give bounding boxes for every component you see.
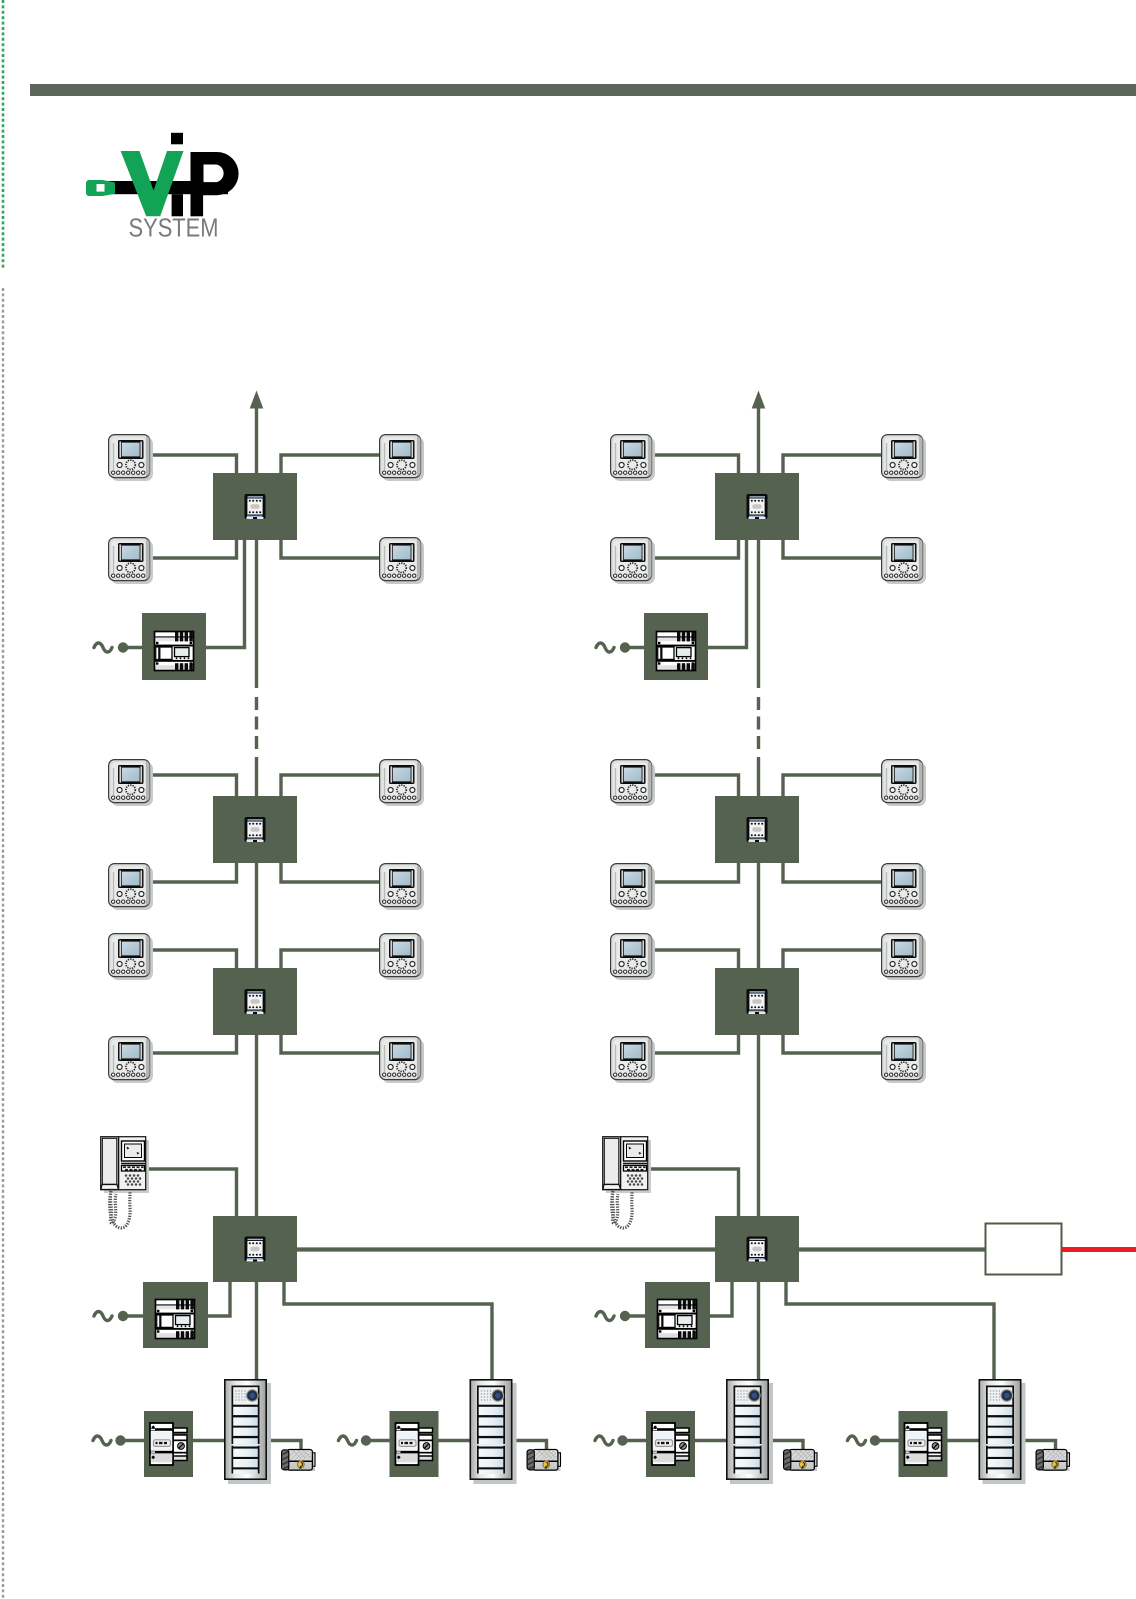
wire mains to door PSU La	[124, 1439, 146, 1442]
wire main distributor to door station DS1a	[255, 1280, 258, 1382]
logo letter P stem	[191, 152, 204, 216]
monitor R5 right	[882, 934, 926, 980]
door station DS2b	[979, 1380, 1025, 1484]
electric lock Ra	[784, 1450, 817, 1472]
wire monitor row 6 left R	[650, 1034, 739, 1053]
junction dot PS1a	[118, 642, 128, 652]
wire monitor row 5 left R	[650, 950, 739, 969]
riser bus L dashed continuation	[255, 697, 258, 750]
trunk bus to legend box	[797, 1247, 986, 1251]
monitor L4 right	[380, 864, 424, 910]
wire mains to PS2b	[626, 1314, 646, 1317]
wire door station to lock La	[265, 1441, 301, 1453]
riser bus L arrow head	[250, 391, 264, 409]
riser bus R lower segment	[757, 757, 760, 1282]
power supply PS2b box	[645, 1282, 710, 1348]
mains tilde PS2a	[596, 643, 614, 652]
wire monitor row 2 left R	[650, 539, 739, 558]
monitor L2 right	[380, 538, 424, 584]
logo letter i stem	[172, 194, 183, 216]
wire main distributor to door station DS1b	[284, 1280, 492, 1382]
floor distributor box R3	[715, 968, 799, 1035]
main distributor box L4	[213, 1216, 297, 1282]
riser bus L lower segment	[255, 757, 258, 1282]
monitor L1 left	[109, 435, 153, 481]
wire mains to PS1a	[124, 646, 144, 649]
junction dot PS2b	[620, 1311, 630, 1321]
logo plug notch	[97, 184, 105, 192]
left margin gray dotted rule	[2, 288, 4, 1599]
riser bus L upper segment	[255, 404, 258, 688]
wire monitor row 1 left R	[650, 455, 739, 474]
monitor R3 right	[882, 760, 926, 806]
red trunk continuation	[1062, 1247, 1136, 1252]
mains tilde door Lb	[339, 1436, 357, 1445]
wire door station to lock Lb	[511, 1441, 547, 1453]
electric lock La	[282, 1450, 315, 1472]
monitor R3 left	[611, 760, 655, 806]
wire monitor row 5 right L	[281, 950, 381, 969]
logo plug collar	[105, 180, 116, 196]
wire monitor row 1 right L	[281, 455, 381, 474]
wire handset H2 to main distributor	[648, 1169, 739, 1217]
mains tilde door Rb	[848, 1436, 866, 1445]
logo letter i dot	[171, 133, 183, 145]
wire monitor row 2 right L	[281, 539, 381, 558]
wire monitor row 6 right L	[281, 1034, 381, 1053]
monitor L5 right	[380, 934, 424, 980]
door PSU La box	[144, 1411, 193, 1477]
logo letter P bowl	[191, 152, 239, 195]
wire monitor row 3 right R	[783, 775, 883, 797]
monitor R1 left	[611, 435, 655, 481]
wire mains to door PSU Rb	[879, 1439, 901, 1442]
wire door station to lock Ra	[767, 1441, 803, 1453]
wire door PSU to door station Ra	[694, 1439, 728, 1442]
header bar	[30, 84, 1136, 96]
wire monitor row 2 right R	[783, 539, 883, 558]
door PSU Lb box	[390, 1411, 439, 1477]
left margin green dotted rule	[2, 0, 5, 268]
wire monitor row 4 right R	[783, 862, 883, 882]
wire mains to door PSU Lb	[370, 1439, 392, 1442]
wire monitor row 1 left L	[148, 455, 237, 474]
wire mains to door PSU Ra	[626, 1439, 648, 1442]
wire monitor row 3 left R	[650, 775, 739, 797]
power supply PS1b box	[143, 1282, 208, 1348]
wire monitor row 6 right R	[783, 1034, 883, 1053]
door station DS1a	[225, 1380, 271, 1484]
monitor R6 right	[882, 1037, 926, 1083]
junction dot door La	[115, 1435, 125, 1445]
wire monitor row 3 right L	[281, 775, 381, 797]
riser bus R upper segment	[757, 404, 760, 688]
logo letter V	[121, 151, 184, 216]
wire main distributor to door station DS2a	[757, 1280, 760, 1382]
floor distributor box L1	[213, 473, 297, 540]
logo ViP cable bar	[108, 181, 228, 194]
wire door PSU to door station Rb	[947, 1439, 981, 1442]
mains tilde door Ra	[595, 1436, 613, 1445]
floor distributor box L3	[213, 968, 297, 1035]
wire monitor row 3 left L	[148, 775, 237, 797]
monitor R5 left	[611, 934, 655, 980]
wire door PSU to door station La	[192, 1439, 226, 1442]
wire power supply PS1a to distributor	[206, 539, 245, 648]
floor distributor box R1	[715, 473, 799, 540]
electric lock Lb	[527, 1450, 560, 1472]
legend box	[986, 1224, 1062, 1275]
wire handset H1 to main distributor	[146, 1169, 237, 1217]
wire power supply PS2b to main distributor	[710, 1280, 732, 1316]
monitor L1 right	[380, 435, 424, 481]
wire power supply PS2a to distributor	[708, 539, 747, 648]
floor distributor box L2	[213, 796, 297, 863]
door PSU Ra box	[646, 1411, 695, 1477]
monitor L5 left	[109, 934, 153, 980]
monitor L4 left	[109, 864, 153, 910]
wire power supply PS1b to main distributor	[208, 1280, 230, 1316]
wire mains to PS1b	[124, 1314, 144, 1317]
wire door PSU to door station Lb	[438, 1439, 472, 1442]
wire main distributor to door station DS2b	[786, 1280, 994, 1382]
power supply PS1a box	[142, 613, 206, 680]
wire monitor row 6 left L	[148, 1034, 237, 1053]
wire monitor row 5 right R	[783, 950, 883, 969]
riser bus R arrow head	[752, 391, 766, 409]
wire monitor row 5 left L	[148, 950, 237, 969]
wire door station to lock Rb	[1020, 1441, 1056, 1453]
electric lock Rb	[1036, 1450, 1069, 1472]
monitor R6 left	[611, 1037, 655, 1083]
monitor R4 right	[882, 864, 926, 910]
wire monitor row 4 right L	[281, 862, 381, 882]
door PSU Rb box	[899, 1411, 948, 1477]
power supply PS2a box	[644, 613, 708, 680]
monitor R2 right	[882, 538, 926, 584]
audio handset H2	[603, 1137, 651, 1228]
monitor L3 right	[380, 760, 424, 806]
monitor R1 right	[882, 435, 926, 481]
audio handset H1	[101, 1137, 149, 1228]
junction dot PS2a	[620, 642, 630, 652]
monitor L2 left	[109, 538, 153, 584]
wire monitor row 2 left L	[148, 539, 237, 558]
door station DS2a	[727, 1380, 773, 1484]
monitor L6 right	[380, 1037, 424, 1083]
wire monitor row 1 right R	[783, 455, 883, 474]
mains tilde door La	[93, 1436, 111, 1445]
floor distributor box R2	[715, 796, 799, 863]
trunk bus between main distributors	[295, 1247, 716, 1251]
door station DS1b	[470, 1380, 516, 1484]
riser bus R dashed continuation	[757, 697, 760, 750]
mains tilde PS1a	[94, 643, 112, 652]
svg-text:SYSTEM: SYSTEM	[129, 213, 219, 243]
junction dot door Lb	[361, 1435, 371, 1445]
wire mains to PS2a	[626, 646, 646, 649]
wire monitor row 4 left R	[650, 862, 739, 882]
junction dot PS1b	[118, 1311, 128, 1321]
junction dot door Ra	[617, 1435, 627, 1445]
monitor L3 left	[109, 760, 153, 806]
wire monitor row 4 left L	[148, 862, 237, 882]
logo plug body	[86, 180, 106, 196]
main distributor box R4	[715, 1216, 799, 1282]
mains tilde PS1b	[94, 1312, 112, 1321]
mains tilde PS2b	[596, 1312, 614, 1321]
monitor R4 left	[611, 864, 655, 910]
monitor L6 left	[109, 1037, 153, 1083]
junction dot door Rb	[870, 1435, 880, 1445]
monitor R2 left	[611, 538, 655, 584]
